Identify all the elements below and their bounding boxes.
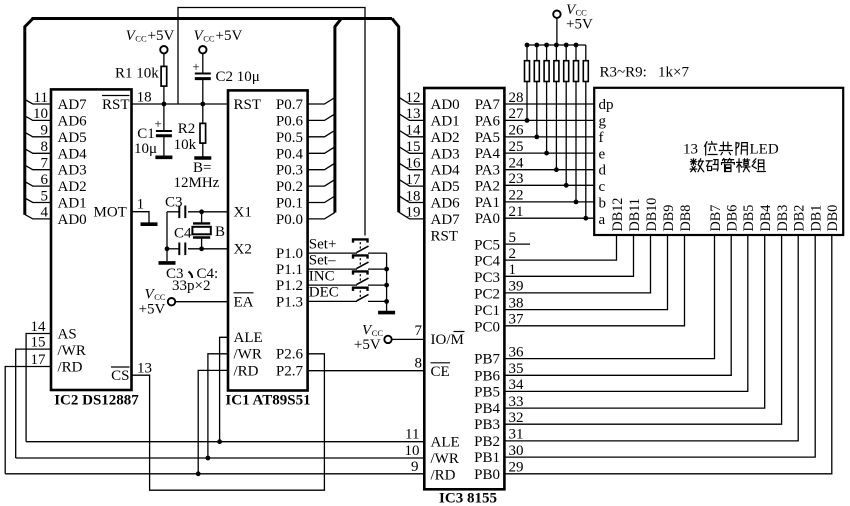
- svg-text:IC1 AT89S51: IC1 AT89S51: [225, 393, 310, 409]
- resistor R1 10k: [115, 53, 167, 104]
- pin labels IC1 P1.0-P1.3: [276, 246, 303, 310]
- junction rail/DEC: [384, 299, 389, 304]
- wire DB8 to IC3 pin 37 PC0: [504, 235, 684, 328]
- svg-text:CC: CC: [203, 34, 215, 44]
- wire IC2 pin 4 AD0 bus entry: [25, 205, 51, 221]
- wire DB3 to IC3 pin 32 PB3: [504, 235, 781, 426]
- svg-text:AD4: AD4: [431, 163, 461, 179]
- wire IC1 /WR drop: [208, 354, 228, 458]
- wire IC2 pin 7 AD3 bus entry: [25, 156, 51, 172]
- svg-text:9: 9: [41, 123, 49, 139]
- svg-text:AD4: AD4: [58, 146, 88, 162]
- svg-text:C4: C4: [174, 226, 192, 242]
- junction X1 node: [199, 209, 204, 214]
- capacitor C4 33p: [167, 226, 192, 256]
- wire IC1 P0.4 bus entry: [308, 147, 335, 154]
- wire IC1 P0.1 bus entry: [308, 196, 335, 203]
- wire C3/C4 common leg: [166, 212, 168, 261]
- wire IC2 /WR pin15 to WR rail: [16, 335, 51, 458]
- wire DB2 to IC3 pin 31 PB2: [504, 235, 798, 443]
- wire IC3 pin 26 PA5 to LED module: [504, 123, 594, 139]
- svg-text:PB2: PB2: [474, 434, 500, 450]
- svg-text:29: 29: [509, 460, 524, 476]
- wire IC3 pin 12 AD0 bus entry: [399, 90, 425, 106]
- svg-text:PA6: PA6: [475, 113, 501, 129]
- svg-text:P1.0: P1.0: [276, 246, 303, 262]
- svg-text:DB9: DB9: [661, 205, 677, 232]
- svg-text:PC5: PC5: [474, 238, 500, 254]
- svg-text:DB8: DB8: [678, 205, 694, 232]
- svg-text:P0.4: P0.4: [276, 146, 304, 162]
- svg-text:13: 13: [406, 106, 421, 122]
- junction on top rail: [564, 43, 569, 48]
- svg-text:32: 32: [509, 410, 524, 426]
- svg-text:11: 11: [34, 90, 48, 106]
- pin label IC1 EA with overline: [234, 293, 254, 311]
- svg-text:PC1: PC1: [474, 303, 500, 319]
- pin labels IC2 left column: [58, 97, 88, 228]
- svg-text:/WR: /WR: [234, 347, 262, 363]
- wire IC3 pin 5 PC5 stub: [504, 230, 530, 246]
- ground for C1: [155, 156, 172, 160]
- svg-text:DB1: DB1: [809, 205, 825, 232]
- wire IC3 pin 16 AD4 bus entry: [399, 156, 425, 172]
- bus: AD address bus top run: [25, 19, 399, 215]
- resistor R3 1k: [525, 45, 530, 123]
- junction R1/C1 node: [162, 102, 167, 107]
- wire DB12 to IC3 pin 2 PC4: [504, 235, 616, 262]
- svg-text:ALE: ALE: [431, 435, 460, 451]
- svg-text:1k×7: 1k×7: [658, 65, 689, 81]
- junction WR rail: [206, 456, 211, 461]
- svg-text:+5V: +5V: [139, 302, 166, 318]
- svg-text:PB5: PB5: [474, 384, 500, 400]
- svg-text:b: b: [599, 196, 607, 212]
- pin labels IC3 PA7-PA0: [475, 97, 501, 227]
- svg-text:/WR: /WR: [431, 451, 459, 467]
- svg-text:PB6: PB6: [474, 368, 500, 384]
- svg-text:22: 22: [509, 188, 524, 204]
- pin labels IC1 P0.x right column: [276, 97, 304, 228]
- svg-text:R3~R9:: R3~R9:: [600, 65, 647, 81]
- wire IC1 P0.0 bus entry: [308, 212, 335, 219]
- wire IC1 P2.7 to IC3 CE pin 8: [308, 355, 425, 371]
- svg-text:2: 2: [509, 246, 517, 262]
- wire IC2 pin 9 AD5 bus entry: [25, 123, 51, 139]
- svg-text:C3: C3: [165, 195, 183, 211]
- Vcc supply for C2: [194, 28, 243, 53]
- svg-text:+: +: [192, 59, 199, 74]
- svg-text:C2 10μ: C2 10μ: [216, 69, 260, 85]
- svg-text:P1.1: P1.1: [276, 262, 303, 278]
- svg-text:P0.7: P0.7: [276, 97, 304, 113]
- Vcc supply for resistor network: [553, 2, 593, 45]
- junction rail/Set-: [384, 267, 389, 272]
- wire X2 row: [188, 248, 228, 250]
- svg-text:AD1: AD1: [58, 196, 87, 212]
- ground for C3/C4: [159, 261, 176, 265]
- svg-text:AD2: AD2: [431, 130, 460, 146]
- pushbutton INC: [308, 268, 387, 285]
- svg-text:PB4: PB4: [474, 401, 500, 417]
- svg-text:P2.6: P2.6: [276, 347, 304, 363]
- crystal B 12MHz: [192, 212, 225, 249]
- wire DB5 to IC3 pin 34 PB5: [504, 235, 747, 393]
- ground for pushbuttons: [378, 311, 395, 315]
- svg-text:B: B: [215, 224, 225, 240]
- wire IC1 P0.6 bus entry: [308, 114, 335, 121]
- svg-text:33p×2: 33p×2: [172, 278, 210, 294]
- svg-text:P0.6: P0.6: [276, 113, 304, 129]
- svg-text:DB4: DB4: [758, 205, 774, 232]
- resistor R9 1k: [583, 45, 588, 221]
- svg-text:+5V: +5V: [354, 337, 381, 353]
- wire IC1 /RD drop: [198, 370, 228, 473]
- svg-text:7: 7: [41, 156, 49, 172]
- svg-text:AD1: AD1: [431, 113, 460, 129]
- svg-text:RST: RST: [102, 97, 130, 113]
- wire IC2 pin 5 AD1 bus entry: [25, 188, 51, 204]
- wire ALE rail: [26, 427, 424, 443]
- svg-text:R1 10k: R1 10k: [115, 66, 159, 82]
- wire IC2 pin18 RST node row: [132, 90, 229, 106]
- wire IC3 pin 27 PA6 to LED module: [504, 106, 594, 122]
- wire IC2 pin 11 AD7 bus entry: [25, 90, 51, 106]
- svg-text:15: 15: [406, 139, 421, 155]
- wire IC2 CS pin13 to IC1 P2.6: [132, 354, 325, 490]
- svg-text:31: 31: [509, 427, 524, 443]
- IC IC3 8155: [424, 88, 504, 506]
- svg-text:9: 9: [411, 459, 419, 475]
- svg-text:AD6: AD6: [431, 196, 461, 212]
- pin labels IC3 AD0-AD7: [431, 97, 461, 228]
- svg-text:PC3: PC3: [474, 270, 500, 286]
- svg-text:/RD: /RD: [431, 467, 456, 483]
- svg-text:/RD: /RD: [234, 363, 259, 379]
- wire IC3 pin 25 PA4 to LED module: [504, 139, 594, 155]
- svg-text:/RD: /RD: [58, 359, 83, 375]
- pin labels LED DB12..DB0 (rotated): [610, 198, 841, 232]
- svg-text:18: 18: [137, 90, 152, 106]
- svg-text:P0.5: P0.5: [276, 130, 303, 146]
- svg-text:PA4: PA4: [475, 146, 501, 162]
- svg-text:RST: RST: [431, 229, 459, 245]
- wire IC3 pin 28 PA7 to LED module: [504, 90, 594, 106]
- svg-text:e: e: [599, 146, 606, 162]
- svg-text:+5V: +5V: [566, 17, 593, 33]
- svg-text:X2: X2: [234, 242, 252, 258]
- wire IC3 pin 24 PA3 to LED module: [504, 156, 594, 172]
- pushbutton Set+: [308, 236, 387, 253]
- svg-text:13: 13: [137, 361, 152, 377]
- pushbutton Set-: [308, 252, 387, 269]
- wire IC1 P0.5 bus entry: [308, 130, 335, 137]
- pin label IC3 IO/M with overline on M: [431, 332, 465, 349]
- wire IC3 pin 15 AD3 bus entry: [399, 139, 425, 155]
- wire DB1 to IC3 pin 30 PB1: [504, 235, 815, 459]
- svg-text:PC2: PC2: [474, 286, 500, 302]
- svg-text:37: 37: [509, 312, 525, 328]
- wire IC3 pin 17 AD5 bus entry: [399, 172, 425, 188]
- svg-text:17: 17: [31, 352, 47, 368]
- svg-text:1: 1: [509, 262, 517, 278]
- junction C4 leg: [165, 246, 170, 251]
- svg-text:8: 8: [41, 139, 49, 155]
- svg-text:DB6: DB6: [725, 205, 741, 232]
- svg-text:PA0: PA0: [475, 211, 500, 227]
- wire RD rail: [5, 459, 424, 475]
- wire pushbutton common rail: [386, 253, 388, 311]
- svg-text:Set+: Set+: [309, 236, 337, 252]
- svg-text:12: 12: [406, 90, 421, 106]
- IC IC1 AT89S51: [225, 90, 310, 408]
- wire DB10 to IC3 pin 39 PC2: [504, 235, 650, 295]
- Vcc supply for EA: [139, 287, 228, 318]
- wire IC2 /RD pin17 to RD rail: [5, 352, 51, 474]
- svg-text:CC: CC: [135, 34, 147, 44]
- wire X1 row: [188, 211, 228, 213]
- wire DB11 to IC3 pin 1 PC3: [504, 235, 633, 278]
- label LED module line1: 13 位共阴LED: [683, 141, 779, 157]
- svg-text:dp: dp: [599, 97, 614, 113]
- svg-text:13: 13: [683, 141, 698, 157]
- svg-text:DB10: DB10: [644, 198, 660, 232]
- svg-text:10k: 10k: [174, 137, 197, 153]
- svg-text:PC4: PC4: [474, 254, 500, 270]
- resistor R5 1k: [544, 45, 549, 156]
- svg-text:PC0: PC0: [474, 319, 500, 335]
- label LED module line2: 数码管模组: [690, 158, 765, 172]
- junction ALE rail: [217, 439, 222, 444]
- svg-text:EA: EA: [234, 294, 254, 310]
- svg-text:21: 21: [509, 204, 524, 220]
- svg-text:AD7: AD7: [431, 212, 461, 228]
- junction on top rail: [544, 43, 549, 48]
- svg-text:DB11: DB11: [627, 198, 643, 231]
- wire IC1 P0.2 bus entry: [308, 180, 335, 187]
- svg-text:27: 27: [509, 106, 525, 122]
- svg-text:AD0: AD0: [58, 212, 87, 228]
- svg-text:DB5: DB5: [741, 205, 757, 232]
- svg-text:5: 5: [509, 230, 517, 246]
- svg-text:P0.0: P0.0: [276, 212, 303, 228]
- svg-text:PB7: PB7: [474, 352, 500, 368]
- svg-text:LED: LED: [750, 141, 779, 157]
- svg-text:Set–: Set–: [309, 252, 336, 268]
- svg-text:AS: AS: [58, 327, 77, 343]
- svg-text:10: 10: [33, 106, 48, 122]
- wire DB6 to IC3 pin 35 PB6: [504, 235, 731, 377]
- svg-text:/WR: /WR: [58, 343, 86, 359]
- wire IC2 pin1 MOT to ground: [132, 197, 150, 223]
- svg-text:39: 39: [509, 279, 524, 295]
- svg-text:PA2: PA2: [475, 178, 500, 194]
- wire DB7 to IC3 pin 36 PB7: [504, 235, 714, 360]
- svg-text:DB12: DB12: [610, 198, 626, 232]
- svg-text:AD5: AD5: [58, 130, 87, 146]
- junction on top rail: [554, 43, 559, 48]
- pin labels IC3 PB7-PB0: [474, 352, 500, 483]
- svg-text:AD3: AD3: [58, 163, 87, 179]
- wire IC1 ALE drop: [220, 337, 228, 441]
- svg-text:4: 4: [41, 205, 49, 221]
- svg-text:15: 15: [31, 335, 46, 351]
- wire IC2 pin 8 AD4 bus entry: [25, 139, 51, 155]
- junction on top rail: [525, 43, 530, 48]
- svg-text:14: 14: [406, 123, 422, 139]
- svg-text:a: a: [599, 212, 606, 228]
- pin label IC2 RST(18) with overline: [102, 96, 130, 114]
- ground for MOT: [141, 222, 158, 226]
- wire IC2 pin 6 AD2 bus entry: [25, 172, 51, 188]
- junction on top rail: [574, 43, 579, 48]
- svg-text:PB3: PB3: [474, 417, 500, 433]
- svg-text:CC: CC: [154, 292, 166, 302]
- svg-text:DB3: DB3: [775, 205, 791, 232]
- svg-text:IO/M: IO/M: [431, 332, 464, 348]
- svg-text:AD2: AD2: [58, 179, 87, 195]
- junction X2 node: [199, 246, 204, 251]
- svg-text:5: 5: [41, 188, 49, 204]
- svg-text:25: 25: [509, 139, 524, 155]
- svg-text:26: 26: [509, 123, 525, 139]
- svg-text:18: 18: [406, 188, 421, 204]
- svg-text:1: 1: [137, 197, 145, 213]
- resistor R8 1k: [574, 45, 579, 204]
- svg-text:PA3: PA3: [475, 163, 500, 179]
- wire IC1 P0.3 bus entry: [308, 163, 335, 170]
- svg-text:DB0: DB0: [825, 205, 841, 232]
- svg-text:IC3 8155: IC3 8155: [439, 491, 497, 506]
- svg-text:23: 23: [509, 171, 524, 187]
- wire IC3 pin 13 AD1 bus entry: [399, 106, 425, 122]
- junction on top rail: [534, 43, 539, 48]
- wire DB0 to IC3 pin 29 PB0: [504, 235, 831, 476]
- svg-text:11: 11: [405, 427, 419, 443]
- svg-text:PB1: PB1: [474, 450, 500, 466]
- svg-text:DEC: DEC: [309, 285, 339, 301]
- svg-text:36: 36: [509, 344, 525, 360]
- svg-text:12MHz: 12MHz: [174, 175, 220, 191]
- wire IC2 AS pin14 to ALE rail: [26, 319, 51, 442]
- Vcc supply for R1: [126, 28, 175, 53]
- wire IC3 pin 18 AD6 bus entry: [399, 188, 425, 204]
- ground for R2: [194, 156, 211, 160]
- svg-text:R2: R2: [178, 121, 196, 137]
- capacitor C3 33p: [165, 195, 185, 219]
- wire IC3 pin 22 PA1 to LED module: [504, 188, 594, 204]
- svg-text:P0.3: P0.3: [276, 163, 303, 179]
- svg-text:PB0: PB0: [474, 467, 500, 483]
- svg-text:8: 8: [415, 355, 423, 371]
- capacitor C2 10u (electrolytic): [192, 53, 259, 104]
- svg-text:RST: RST: [234, 97, 262, 113]
- label C3,C4: 33p x2: [166, 266, 218, 294]
- svg-text:C1: C1: [137, 126, 155, 142]
- svg-text:c: c: [599, 179, 606, 195]
- svg-text:PA7: PA7: [475, 97, 501, 113]
- junction C2/R2 node: [200, 102, 205, 107]
- wire DB4 to IC3 pin 33 PB4: [504, 235, 764, 410]
- svg-text:PA5: PA5: [475, 130, 500, 146]
- svg-text:B=: B=: [193, 160, 211, 176]
- IC IC2 DS12887: [51, 89, 139, 408]
- LED module: 13-digit common-cathode display: [594, 88, 843, 235]
- svg-text:P1.2: P1.2: [276, 278, 303, 294]
- svg-text:f: f: [599, 130, 604, 146]
- wire IC3 pin 14 AD2 bus entry: [399, 123, 425, 139]
- junction rail/INC: [384, 283, 389, 288]
- svg-text:AD3: AD3: [431, 146, 460, 162]
- svg-text:P1.3: P1.3: [276, 294, 303, 310]
- svg-text:24: 24: [509, 156, 525, 172]
- svg-text:33: 33: [509, 394, 524, 410]
- svg-text:DB2: DB2: [792, 205, 808, 232]
- svg-text:35: 35: [509, 361, 524, 377]
- svg-text:P0.2: P0.2: [276, 179, 303, 195]
- svg-text:d: d: [599, 163, 607, 179]
- wire resistor network top rail: [527, 44, 586, 46]
- wire IC3 pin 19 AD7 bus entry: [399, 205, 425, 221]
- wire WR rail: [16, 443, 425, 459]
- svg-text:IC2 DS12887: IC2 DS12887: [54, 393, 139, 409]
- wire IC1 P0.7 bus entry: [308, 98, 335, 105]
- svg-text:17: 17: [406, 172, 422, 188]
- svg-text:7: 7: [415, 323, 423, 339]
- resistor R7 1k: [564, 45, 569, 188]
- svg-text:34: 34: [509, 377, 525, 393]
- svg-text:+5V: +5V: [216, 28, 243, 44]
- svg-text:+5V: +5V: [148, 28, 175, 44]
- svg-text:AD5: AD5: [431, 179, 460, 195]
- capacitor C1 10u (electrolytic): [134, 104, 172, 157]
- svg-text:19: 19: [406, 205, 421, 221]
- svg-text:g: g: [599, 113, 607, 129]
- pin label IC3 CE with overline: [431, 363, 451, 380]
- svg-text:DB7: DB7: [708, 205, 724, 232]
- svg-text:30: 30: [509, 443, 524, 459]
- svg-text:MOT: MOT: [94, 205, 127, 221]
- wire DB9 to IC3 pin 38 PC1: [504, 235, 667, 311]
- pin labels IC3 PC5-PC0: [474, 238, 500, 336]
- wire IC2 pin 10 AD6 bus entry: [25, 106, 51, 122]
- resistor R2 10k: [174, 104, 206, 157]
- wire IC3 pin 23 PA2 to LED module: [504, 171, 594, 187]
- Vcc supply for IO/M: [354, 323, 424, 354]
- svg-text:+: +: [154, 116, 161, 131]
- svg-text:X1: X1: [234, 205, 252, 221]
- pin labels LED segments dp..a: [599, 97, 614, 228]
- svg-text:AD0: AD0: [431, 97, 460, 113]
- svg-text:P0.1: P0.1: [276, 196, 303, 212]
- resistor R4 1k: [534, 45, 539, 139]
- resistor R6 1k: [554, 45, 559, 172]
- label B= 12MHz: [174, 160, 220, 191]
- svg-text:10: 10: [405, 443, 420, 459]
- svg-text:ALE: ALE: [234, 330, 263, 346]
- svg-text:38: 38: [509, 295, 524, 311]
- svg-text:14: 14: [31, 319, 47, 335]
- pin label IC2 CS(13) with overline: [111, 367, 130, 384]
- junction RD rail: [196, 471, 201, 476]
- svg-text:INC: INC: [309, 268, 335, 284]
- svg-text:16: 16: [406, 156, 422, 172]
- svg-text:PA1: PA1: [475, 195, 500, 211]
- svg-text:10μ: 10μ: [134, 141, 157, 157]
- svg-text:AD7: AD7: [58, 97, 88, 113]
- wire IC3 pin 21 PA0 to LED module: [504, 204, 594, 220]
- svg-text:CS: CS: [111, 368, 129, 384]
